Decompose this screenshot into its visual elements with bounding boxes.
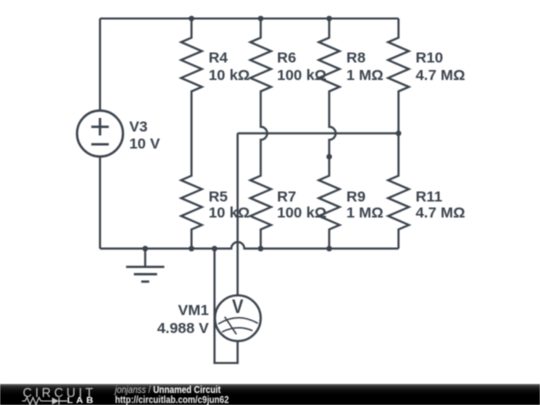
wire bottom rail (hops over voltmeter wire) (100, 242, 399, 249)
resistor R6 and resistor R7 column (hops over middle wire) (250, 19, 271, 249)
svg-text:10 kΩ: 10 kΩ (209, 67, 250, 84)
node: R8-R9 wire junction (326, 154, 332, 160)
svg-text:R6: R6 (277, 50, 296, 67)
svg-text:R8: R8 (346, 50, 365, 67)
svg-text:10 V: 10 V (129, 136, 160, 153)
V3 plus sign (91, 118, 109, 136)
svg-text:R9: R9 (346, 188, 365, 205)
logo LAB text (67, 395, 96, 405)
voltmeter needle (225, 317, 237, 335)
V3 minus sign (91, 143, 109, 145)
wire voltmeter positive lead (237, 133, 239, 295)
node: bottom rail / R7 (258, 246, 264, 252)
wire voltmeter negative loop (215, 249, 238, 363)
svg-text:100 kΩ: 100 kΩ (277, 205, 327, 222)
footer line 1: author / title (115, 385, 221, 396)
svg-text:R5: R5 (209, 188, 228, 205)
resistor R4 and resistor R5 column (181, 19, 202, 249)
svg-text:4.7 MΩ: 4.7 MΩ (416, 205, 466, 222)
ground bar 3 (141, 280, 149, 282)
node: top rail / R8 (326, 16, 332, 22)
svg-text:1 MΩ: 1 MΩ (346, 205, 383, 222)
svg-text:4.7 MΩ: 4.7 MΩ (416, 67, 466, 84)
svg-text:V: V (232, 297, 244, 318)
svg-text:R7: R7 (277, 188, 296, 205)
voltage source V3 circle (77, 111, 123, 157)
wire top rail (100, 17, 399, 19)
wire middle node (voltmeter tap) (238, 132, 399, 134)
voltmeter scale arc lower (222, 328, 253, 332)
svg-text:R10: R10 (416, 50, 444, 67)
node: top rail / R4 (189, 16, 195, 22)
footer line 2: url (115, 395, 229, 405)
logo resistor zigzag (22, 398, 52, 405)
voltmeter scale arc upper (218, 318, 258, 324)
svg-text:R11: R11 (416, 188, 443, 205)
node: bottom rail / ground (142, 246, 148, 252)
svg-text:VM1: VM1 (178, 302, 209, 319)
node: bottom rail / R5 (189, 246, 195, 252)
svg-text:100 kΩ: 100 kΩ (277, 67, 327, 84)
resistor R10 and resistor R11 column (388, 19, 409, 249)
footer bar (0, 384, 540, 405)
node: top rail / R6 (258, 16, 264, 22)
logo diode (52, 398, 59, 405)
node: bottom rail / voltmeter return (212, 246, 218, 252)
ground bar 2 (134, 273, 157, 275)
svg-text:1 MΩ: 1 MΩ (346, 67, 383, 84)
wire left rail upper (99, 19, 101, 111)
svg-text:R4: R4 (209, 50, 229, 67)
svg-text:4.988 V: 4.988 V (157, 320, 209, 337)
svg-text:10 kΩ: 10 kΩ (209, 205, 250, 222)
ground stub (144, 249, 146, 267)
node: bottom rail / R9 (326, 246, 332, 252)
resistor R8 and resistor R9 column (hops over middle wire) (319, 19, 340, 249)
ground bar 1 (126, 266, 164, 268)
svg-text:V3: V3 (129, 118, 147, 135)
wire left rail lower (99, 157, 101, 249)
voltmeter VM1 circle (215, 295, 261, 341)
CircuitLab logo resistor-diode glyph and LAB (22, 396, 97, 405)
CircuitLab logo text CIRCUIT (23, 386, 113, 400)
node: middle wire / R10-R11 junction (396, 131, 402, 137)
